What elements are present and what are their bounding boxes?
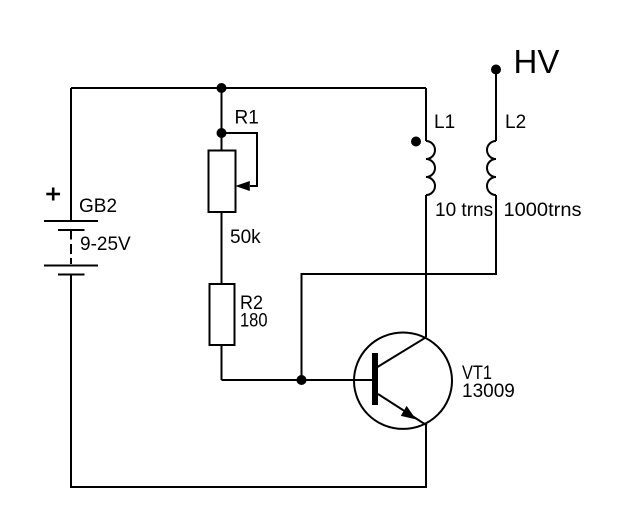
svg-text:GB2: GB2 <box>79 196 117 217</box>
svg-text:13009: 13009 <box>462 381 515 402</box>
svg-text:9-25V: 9-25V <box>80 234 131 255</box>
svg-text:1000trns: 1000trns <box>504 200 582 221</box>
svg-text:50k: 50k <box>230 227 261 248</box>
svg-text:R1: R1 <box>235 108 259 129</box>
svg-text:10 trns: 10 trns <box>435 200 493 221</box>
svg-text:HV: HV <box>514 43 560 80</box>
svg-text:180: 180 <box>240 311 268 332</box>
svg-text:L2: L2 <box>505 112 526 133</box>
svg-text:L1: L1 <box>434 112 455 133</box>
